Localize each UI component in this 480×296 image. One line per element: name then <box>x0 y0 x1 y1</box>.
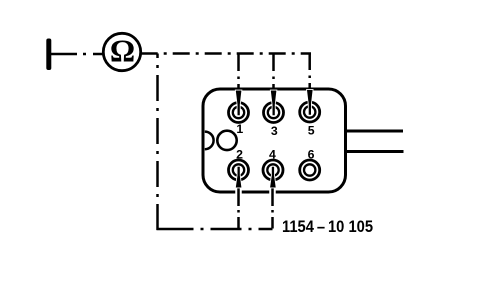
pin 3 <box>264 103 284 123</box>
pin 2 <box>229 160 249 180</box>
connector body X1 <box>203 89 346 192</box>
pin 4 <box>263 160 283 180</box>
svg-text:4: 4 <box>269 148 276 162</box>
pin 5 <box>300 102 320 122</box>
keying hole <box>217 131 236 150</box>
arrow into pin 5 <box>307 90 313 115</box>
pin 2 label <box>236 148 243 162</box>
wire: left vertical drop (dash-dot) <box>156 54 159 231</box>
wire: ohmmeter to top bus (dash-dot) <box>141 52 311 55</box>
pin 3 label <box>271 124 278 138</box>
pin 6 label <box>308 148 315 162</box>
wire: probe to ohmmeter <box>51 53 104 56</box>
wire: drop to pin 1 (dash-dot) <box>237 54 240 92</box>
svg-text:3: 3 <box>271 124 278 138</box>
pin 1 label <box>236 122 243 136</box>
wire: riser to pin 4 (dash-dot, crosses body edge) <box>269 187 276 229</box>
wire: drop to pin 3 (dash-dot) <box>272 54 275 92</box>
arrow into pin 2 <box>236 167 242 188</box>
arrow into pin 1 <box>236 91 242 116</box>
pin 1 <box>229 103 249 123</box>
svg-text:5: 5 <box>308 124 315 138</box>
svg-text:1154 – 10 105: 1154 – 10 105 <box>282 218 373 236</box>
svg-text:2: 2 <box>236 148 243 162</box>
probe tip of ohmmeter test lead <box>46 39 51 71</box>
svg-text:Ω: Ω <box>110 34 135 69</box>
ohmmeter U1 (circle with omega) <box>103 33 140 70</box>
wire: riser to pin 2 (dash-dot, crosses body edge) <box>235 187 242 229</box>
pin 5 label <box>308 124 315 138</box>
svg-text:6: 6 <box>308 148 315 162</box>
arrow into pin 3 <box>271 91 277 116</box>
pin 4 label <box>269 148 276 162</box>
wire: bottom horizontal bus (dash-dot) <box>156 228 272 231</box>
svg-text:1: 1 <box>236 122 243 136</box>
part number label 1154-10 105 <box>282 218 373 236</box>
arrow into pin 4 <box>270 167 276 188</box>
pin 6 <box>300 160 320 180</box>
keying notch on connector left edge <box>205 132 214 150</box>
harness wire upper (right) <box>346 130 403 133</box>
harness wire lower (right) <box>346 150 404 153</box>
wire: drop to pin 5 (dash-dot) <box>308 54 311 91</box>
